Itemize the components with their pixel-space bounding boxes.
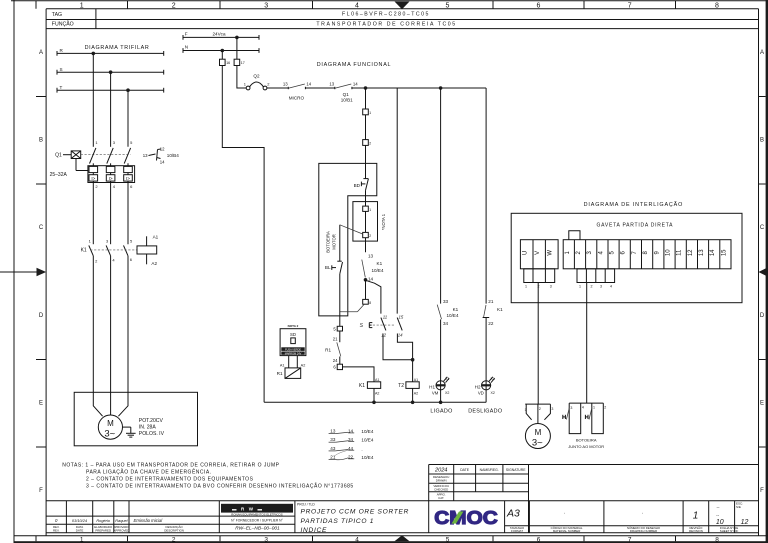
- svg-text:2: 2: [172, 3, 176, 10]
- svg-text:MATERIAL NUMBER: MATERIAL NUMBER: [553, 529, 580, 533]
- terminal 17: [234, 59, 245, 65]
- svg-text:1: 1: [80, 536, 84, 543]
- svg-text:17: 17: [241, 61, 245, 65]
- svg-text:B: B: [760, 138, 764, 144]
- node bus H1: [439, 401, 443, 405]
- svg-text:A2: A2: [375, 391, 379, 395]
- wire to contact K1 13/14: [365, 238, 367, 253]
- svg-text:K1: K1: [81, 248, 87, 254]
- coil K1: [359, 378, 381, 395]
- svg-text:PARTIDAS TIPICO 1: PARTIDAS TIPICO 1: [301, 518, 375, 525]
- svg-text:DIAGRAMA FUNCIONAL: DIAGRAMA FUNCIONAL: [317, 62, 392, 68]
- svg-text:LIGADO: LIGADO: [430, 409, 452, 415]
- svg-text:V: V: [535, 251, 541, 255]
- svg-text:10/E4: 10/E4: [372, 268, 384, 273]
- plug terminals 1-4: [577, 269, 615, 289]
- svg-text:N: N: [185, 45, 188, 50]
- wire F to terminal 17: [236, 37, 238, 59]
- svg-text:M: M: [535, 428, 542, 437]
- wire: [365, 115, 367, 140]
- contact list K1 21/22: [329, 450, 374, 460]
- svg-text:MARROM 24V: MARROM 24V: [285, 352, 302, 355]
- node bus T2: [411, 401, 415, 405]
- svg-text:3: 3: [264, 536, 268, 543]
- gaveta partida direta enclosure: [511, 213, 742, 302]
- svg-text:H1: H1: [429, 384, 435, 389]
- pushbutton BD (NC): [354, 179, 369, 191]
- motor rating labels: [139, 418, 165, 437]
- wire L1 K1 to motor: [92, 256, 94, 392]
- svg-text:--: --: [717, 505, 720, 510]
- phase bus T: [57, 85, 164, 93]
- svg-text:VD: VD: [478, 391, 484, 396]
- phase bus S: [57, 67, 164, 75]
- wire stubs through overload: [93, 163, 128, 182]
- svg-text:DATE: DATE: [460, 468, 470, 472]
- svg-text:FUNÇÃO: FUNÇÃO: [52, 21, 74, 28]
- svg-text:.: .: [642, 510, 643, 516]
- svg-text:4: 4: [610, 285, 612, 289]
- svg-text:10: 10: [666, 249, 672, 256]
- svg-text:03/10/24: 03/10/24: [72, 518, 88, 523]
- svg-text:2 – CONTATO DE INTERTRAVAM: 2 – CONTATO DE INTERTRAVAMENTO DOS EQUIP…: [86, 476, 254, 482]
- svg-text:A2: A2: [414, 391, 418, 395]
- svg-text:X1: X1: [491, 377, 495, 381]
- svg-text:Q2: Q2: [253, 73, 260, 78]
- svg-text:E: E: [760, 401, 764, 407]
- svg-text:1: 1: [80, 3, 84, 10]
- motor enclosure box: [74, 392, 197, 446]
- svg-text:10/B1: 10/B1: [341, 97, 353, 102]
- wire L2 K1 to motor: [110, 256, 112, 392]
- terminal 5: [333, 326, 342, 331]
- svg-text:F: F: [39, 488, 43, 494]
- svg-text:BL: BL: [325, 265, 331, 270]
- wire L2 drop: [110, 72, 112, 147]
- wire control feeder: [352, 87, 486, 89]
- wire L3 drop: [127, 90, 129, 147]
- label botoeira junto ao motor: [568, 437, 604, 449]
- breaker Q1: [50, 140, 134, 178]
- relay R1 coil: [277, 368, 301, 379]
- svg-text:SHEET N°/OF: SHEET N°/OF: [720, 529, 739, 533]
- wire H1 branch: [440, 88, 442, 304]
- svg-text:VM: VM: [432, 391, 439, 396]
- switch MICRO 13/14: [283, 82, 312, 101]
- svg-text:.: .: [361, 446, 362, 451]
- svg-text:24: 24: [333, 358, 338, 363]
- coil T2: [398, 378, 419, 395]
- svg-text:11: 11: [383, 314, 388, 319]
- svg-text:FORMAT: FORMAT: [511, 529, 523, 533]
- motor M1 3~: [98, 415, 122, 440]
- svg-text:MICRO: MICRO: [289, 95, 305, 100]
- svg-text:NAME/REG.: NAME/REG.: [480, 468, 499, 472]
- node contact output: [364, 278, 368, 282]
- svg-text:Emissão Inicial: Emissão Inicial: [134, 518, 164, 523]
- pushbutton left (field): [563, 403, 584, 434]
- svg-text:SD: SD: [290, 332, 296, 337]
- svg-text:RONAN EQUIPAMENTOS ELETRICOS: RONAN EQUIPAMENTOS ELETRICOS: [231, 513, 283, 517]
- wire coil T2 to bus: [412, 388, 414, 402]
- terminal 6: [333, 364, 342, 369]
- svg-text:11: 11: [677, 249, 683, 256]
- svg-text:2: 2: [604, 405, 606, 409]
- jumper box NOTA 1: [353, 202, 378, 242]
- phase bus R: [57, 48, 164, 56]
- svg-text:4: 4: [355, 536, 359, 543]
- contact K1 21/22 NC: [483, 299, 503, 326]
- contact list K1 43/44: [329, 446, 363, 451]
- suppressor SD NOTA 2: [280, 324, 306, 356]
- svg-text:1: 1: [693, 511, 699, 522]
- svg-text:U: U: [523, 251, 529, 255]
- svg-text:.: .: [564, 510, 565, 516]
- contactor K1 main contacts: [81, 238, 137, 263]
- svg-text:33: 33: [443, 299, 449, 304]
- svg-text:16: 16: [226, 61, 230, 65]
- terminal jumper a: [363, 206, 372, 212]
- svg-text:X2: X2: [445, 391, 449, 395]
- node bus K1: [372, 401, 376, 405]
- wire selector 13 feeder: [396, 88, 398, 314]
- wire H2 branch: [485, 88, 487, 304]
- svg-text:3~: 3~: [104, 429, 115, 440]
- svg-text:2: 2: [369, 234, 371, 238]
- wire L3 breaker to K1: [127, 183, 129, 245]
- fuse Q2: [244, 73, 271, 90]
- svg-text:Rogério: Rogério: [96, 518, 110, 523]
- svg-text:M: M: [107, 419, 114, 428]
- jumper terminals 1-2: [569, 231, 580, 240]
- svg-text:TAG: TAG: [52, 12, 62, 18]
- pushbutton BL (NO): [325, 261, 343, 274]
- svg-text:2: 2: [369, 142, 371, 146]
- svg-text:10/B4: 10/B4: [167, 153, 179, 158]
- svg-text:13: 13: [330, 429, 336, 434]
- wire lamp H1 to bus: [440, 381, 442, 403]
- svg-text:A: A: [760, 50, 764, 56]
- svg-text:DIAGRAMA TRIFILAR: DIAGRAMA TRIFILAR: [85, 45, 150, 51]
- contact list K1 13/14: [329, 429, 374, 434]
- svg-text:--: --: [716, 513, 719, 518]
- svg-text:H2: H2: [475, 384, 481, 389]
- wire terminal 8 to BL branch: [340, 304, 364, 312]
- svg-text:A1: A1: [414, 378, 418, 382]
- svg-text:13: 13: [699, 249, 705, 256]
- svg-text:REV.: REV.: [53, 528, 60, 532]
- svg-text:6: 6: [537, 536, 541, 543]
- svg-text:3 – CONTATO DE INTERTRAVAM: 3 – CONTATO DE INTERTRAVAMENTO DA BVO CO…: [86, 482, 354, 489]
- svg-text:43: 43: [330, 446, 336, 451]
- svg-text:R1: R1: [277, 371, 283, 376]
- svg-text:IN. 28A: IN. 28A: [139, 424, 157, 430]
- botoeira top bar: [569, 402, 603, 404]
- svg-text:NOTA 2: NOTA 2: [288, 324, 299, 328]
- wire N to terminal 16: [221, 51, 223, 60]
- contact Q1 aux 13/14 10/B1: [329, 82, 358, 103]
- svg-text:1: 1: [369, 208, 371, 212]
- svg-text:S/E: S/E: [736, 505, 741, 509]
- wire L3 K1 to motor: [127, 256, 129, 392]
- svg-text:BOTOEIRA: BOTOEIRA: [326, 231, 331, 253]
- svg-text:A1: A1: [375, 378, 379, 382]
- svg-text:PROJ / TLD: PROJ / TLD: [297, 503, 315, 507]
- wire BD to jumper terminal: [365, 190, 367, 206]
- svg-text:K1: K1: [359, 383, 365, 389]
- svg-text:A2: A2: [301, 364, 306, 368]
- svg-text:22: 22: [488, 321, 494, 326]
- label botoeira motor (rotated): [326, 231, 337, 253]
- wire MICRO to Q1 aux: [305, 87, 334, 89]
- svg-text:DESLIGADO: DESLIGADO: [468, 409, 502, 415]
- terminal strip UVW: [520, 240, 558, 269]
- svg-text:4: 4: [355, 3, 359, 10]
- svg-text:I>: I>: [91, 176, 95, 181]
- overload relay Q1 thermal block: [88, 166, 135, 190]
- svg-text:10/E4: 10/E4: [361, 429, 373, 434]
- svg-text:5: 5: [446, 3, 450, 10]
- node main branch: [364, 86, 368, 90]
- svg-text:10/E4: 10/E4: [361, 455, 373, 460]
- contact Q1 aux 12/14 cross-ref 10/B4: [143, 147, 180, 165]
- plug UVW: [524, 269, 555, 289]
- node S tap: [109, 70, 113, 74]
- node N tap: [221, 49, 225, 53]
- svg-text:Raquel: Raquel: [115, 518, 127, 523]
- svg-text:POLOS. IV: POLOS. IV: [139, 431, 165, 437]
- svg-text:DRAWING NUMBER: DRAWING NUMBER: [630, 529, 657, 533]
- svg-text:2: 2: [539, 407, 541, 411]
- svg-text:8: 8: [715, 536, 719, 543]
- svg-text:A3: A3: [506, 508, 520, 520]
- svg-text:CMOC: CMOC: [434, 507, 498, 528]
- svg-text:12: 12: [741, 519, 749, 526]
- svg-text:13: 13: [368, 254, 374, 259]
- svg-text:NOTAS: 1 – PARA USO EM T: NOTAS: 1 – PARA USO EM TRANSPORTADOR DE …: [62, 462, 279, 468]
- svg-text:33: 33: [330, 437, 336, 442]
- wire main branch drop: [365, 88, 367, 109]
- svg-text:14: 14: [710, 249, 716, 256]
- selector switch S: [360, 314, 404, 337]
- svg-text:1: 1: [593, 405, 595, 409]
- wire neutral return: [222, 66, 264, 403]
- node R tap: [92, 52, 96, 56]
- svg-text:I>: I>: [126, 176, 130, 181]
- svg-text:I>: I>: [109, 176, 113, 181]
- svg-text:K1: K1: [497, 307, 503, 312]
- svg-text:REVISION: REVISION: [689, 529, 703, 533]
- svg-text:W: W: [548, 250, 554, 256]
- svg-text:A2: A2: [151, 261, 157, 266]
- svg-text:D: D: [39, 313, 44, 319]
- node T2 feed: [411, 358, 415, 362]
- svg-text:7: 7: [628, 536, 632, 543]
- svg-text:3: 3: [264, 3, 268, 10]
- svg-text:DRAWN: DRAWN: [436, 478, 447, 482]
- wire L1 breaker to K1: [92, 183, 94, 245]
- svg-text:D: D: [760, 313, 765, 319]
- wire coil K1 to bus: [373, 388, 375, 402]
- svg-text:1: 1: [579, 285, 581, 289]
- terminal 2: [363, 140, 372, 146]
- svg-text:B: B: [39, 138, 43, 144]
- svg-text:13: 13: [283, 82, 288, 87]
- svg-text:3: 3: [550, 285, 552, 289]
- wire terminal 6 to coil K1: [343, 367, 375, 382]
- svg-text:MOTOR: MOTOR: [332, 234, 337, 250]
- svg-text:PREPARED: PREPARED: [95, 528, 111, 532]
- svg-text:C: C: [39, 225, 44, 231]
- svg-text:3: 3: [600, 285, 602, 289]
- wire to terminal 8: [365, 280, 367, 300]
- svg-text:3~: 3~: [532, 438, 543, 449]
- svg-text:T: T: [60, 85, 63, 90]
- svg-text:DATE: DATE: [76, 528, 84, 532]
- svg-text:12: 12: [688, 249, 694, 256]
- supply line N: [183, 45, 259, 53]
- svg-text:1: 1: [525, 285, 527, 289]
- lamp H2 VD: [475, 377, 495, 396]
- svg-text:13: 13: [143, 153, 148, 158]
- contact R1 21/24: [325, 331, 341, 364]
- ground: [123, 427, 136, 437]
- svg-text:2: 2: [172, 536, 176, 543]
- svg-text:T2: T2: [398, 383, 404, 389]
- svg-text:14: 14: [306, 82, 311, 87]
- svg-text:BOTOEIRA: BOTOEIRA: [576, 437, 597, 442]
- svg-text:FUSA VERDE: FUSA VERDE: [285, 348, 301, 351]
- wire botoeira cable: [586, 283, 588, 404]
- wire contact to lamp H2: [485, 318, 487, 381]
- svg-text:4: 4: [582, 405, 584, 409]
- svg-text:12: 12: [381, 333, 386, 338]
- svg-text:POT.20CV: POT.20CV: [139, 418, 164, 424]
- svg-text:2024: 2024: [434, 467, 447, 473]
- svg-text:12: 12: [160, 147, 165, 152]
- svg-text:E: E: [39, 401, 43, 407]
- svg-text:JUNTO AO MOTOR: JUNTO AO MOTOR: [568, 444, 604, 449]
- svg-text:CAT.: CAT.: [438, 496, 444, 500]
- svg-text:14: 14: [353, 82, 358, 87]
- svg-text:21: 21: [330, 455, 336, 460]
- svg-text:FL06–BVFR–C280–TC05: FL06–BVFR–C280–TC05: [342, 12, 430, 18]
- svg-text:K1: K1: [377, 261, 383, 266]
- svg-text:TRANSPORTADOR DE CORREIA TC05: TRANSPORTADOR DE CORREIA TC05: [316, 21, 456, 27]
- terminal strip 1-15: [563, 240, 731, 269]
- svg-text:5: 5: [446, 536, 450, 543]
- svg-text:INDICE: INDICE: [301, 527, 328, 534]
- wire fuse to MICRO: [267, 87, 288, 89]
- wire BL down to terminal 5: [339, 274, 341, 326]
- svg-text:X2: X2: [491, 391, 495, 395]
- svg-text:PARA LIGAÇÃO DA CHAVE DE: PARA LIGAÇÃO DA CHAVE DE EMERGÊNCIA.: [86, 467, 212, 475]
- svg-text:N° FORNECEDOR / SUPPLIER N°: N° FORNECEDOR / SUPPLIER N°: [231, 518, 283, 522]
- svg-text:3: 3: [551, 407, 553, 411]
- svg-text:X1: X1: [445, 377, 449, 381]
- terminal jumper b: [363, 232, 372, 238]
- svg-text:F: F: [185, 32, 188, 37]
- svg-text:13: 13: [329, 82, 334, 87]
- svg-text:1: 1: [369, 111, 371, 115]
- svg-text:14: 14: [368, 276, 374, 281]
- svg-text:DIAGRAMA DE INTERLIGAÇÃO: DIAGRAMA DE INTERLIGAÇÃO: [584, 201, 683, 208]
- svg-text:APPROVED: APPROVED: [113, 528, 129, 532]
- svg-text:CHECKED: CHECKED: [434, 487, 448, 491]
- wire BL to jumper: [340, 225, 363, 261]
- motor M field: [525, 424, 550, 449]
- wire selector 14 to coil T2: [397, 334, 412, 382]
- svg-text:10/E4: 10/E4: [361, 438, 373, 443]
- svg-text:Q1: Q1: [55, 152, 62, 158]
- svg-text:A: A: [39, 50, 43, 56]
- svg-text:C: C: [760, 225, 765, 231]
- svg-text:34: 34: [443, 321, 449, 326]
- svg-text:14: 14: [398, 333, 403, 338]
- pushbutton right (field): [585, 403, 606, 434]
- terminal 16: [220, 59, 231, 65]
- wire terminal 17 to fuse: [237, 66, 246, 89]
- wire motor leads: [93, 392, 128, 416]
- svg-text:RW–EL–NB–00–001: RW–EL–NB–00–001: [235, 526, 280, 532]
- wire jumper: [365, 211, 367, 232]
- lamp H1 VM: [429, 377, 449, 396]
- wire L1 drop: [92, 53, 94, 146]
- svg-text:*NOTA 1: *NOTA 1: [381, 213, 386, 230]
- svg-text:K1: K1: [453, 307, 459, 312]
- svg-text:GAVETA PARTIDA DIRETA: GAVETA PARTIDA DIRETA: [597, 222, 674, 228]
- svg-text:BD: BD: [354, 183, 361, 188]
- contact K1 13/14 seal-in: [362, 254, 384, 282]
- coil K1 (trifilar symbol): [137, 234, 159, 266]
- svg-text:21: 21: [333, 336, 338, 341]
- svg-text:F: F: [760, 488, 764, 494]
- svg-text:8: 8: [369, 301, 371, 305]
- svg-text:8: 8: [715, 3, 719, 10]
- svg-text:15: 15: [399, 314, 404, 319]
- svg-text:10: 10: [716, 519, 724, 526]
- svg-text:A1: A1: [153, 234, 159, 239]
- svg-text:3: 3: [570, 406, 572, 410]
- svg-text:15: 15: [721, 249, 727, 256]
- contact list K1 33/34: [329, 437, 374, 442]
- wire L2 breaker to K1: [110, 183, 112, 245]
- motor terminal bar: [525, 404, 554, 423]
- node T tap: [126, 88, 130, 92]
- svg-text:24Vca: 24Vca: [212, 32, 225, 37]
- svg-text:A1: A1: [280, 364, 285, 368]
- svg-text:DESCRIPTION: DESCRIPTION: [164, 528, 184, 532]
- contact K1 33/34: [437, 299, 459, 326]
- terminal 1: [363, 109, 372, 115]
- wire contact to lamp H1: [440, 319, 442, 380]
- svg-text:Q1: Q1: [343, 92, 350, 97]
- svg-text:10/E4: 10/E4: [447, 313, 459, 318]
- wire lamp H2 to bus: [485, 381, 487, 403]
- node F tap: [235, 36, 239, 40]
- svg-text:6: 6: [537, 3, 541, 10]
- wire branch to selector: [366, 280, 381, 313]
- svg-text:S: S: [60, 67, 63, 72]
- node H1 branch: [439, 86, 443, 90]
- svg-text:14: 14: [160, 159, 165, 164]
- svg-text:PROJETO CCM ORE SORTER: PROJETO CCM ORE SORTER: [301, 508, 410, 515]
- wire selector 12 to node: [383, 334, 413, 360]
- supply line F 24Vca: [183, 32, 259, 40]
- botoeira motor enclosure: [319, 163, 377, 316]
- svg-text:25–32A: 25–32A: [50, 172, 68, 178]
- wire motor cable: [537, 283, 539, 405]
